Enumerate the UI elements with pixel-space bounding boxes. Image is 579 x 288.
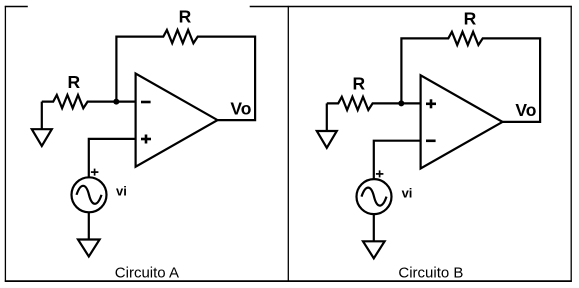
svg-text:R: R [179,7,192,27]
svg-text:R: R [67,72,80,92]
svg-text:Vo: Vo [515,100,536,120]
svg-text:R: R [352,74,365,94]
svg-text:vi: vi [402,186,413,201]
svg-text:Circuito B: Circuito B [398,265,463,282]
svg-text:R: R [464,9,477,29]
svg-text:Circuito A: Circuito A [115,265,179,282]
svg-text:Vo: Vo [230,98,251,118]
svg-text:vi: vi [116,184,127,199]
